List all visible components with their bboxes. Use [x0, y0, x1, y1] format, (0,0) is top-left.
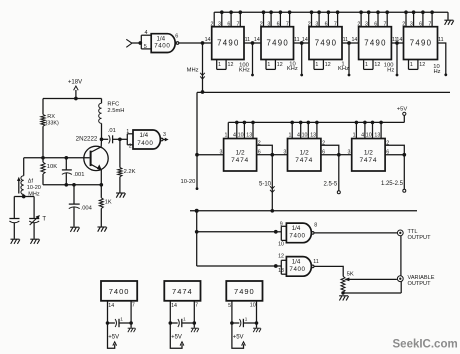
svg-text:10: 10 [366, 133, 372, 139]
svg-text:.01: .01 [108, 128, 116, 134]
svg-text:7474: 7474 [359, 157, 377, 164]
svg-text:7: 7 [195, 303, 198, 309]
svg-text:14: 14 [205, 37, 211, 43]
svg-text:4: 4 [361, 133, 364, 139]
svg-text:6: 6 [386, 150, 389, 156]
svg-text:7: 7 [132, 303, 135, 309]
svg-text:5: 5 [228, 303, 231, 309]
svg-text:KHz: KHz [239, 68, 250, 74]
svg-text:OUTPUT: OUTPUT [408, 281, 432, 287]
svg-text:5K: 5K [347, 271, 354, 277]
svg-text:13: 13 [374, 133, 380, 139]
svg-text:14: 14 [254, 37, 260, 43]
svg-text:6: 6 [322, 150, 325, 156]
svg-text:2: 2 [129, 144, 132, 150]
svg-text:12: 12 [277, 62, 283, 68]
svg-text:6: 6 [258, 150, 261, 156]
svg-text:2: 2 [260, 21, 263, 27]
svg-text:SeekIC.com: SeekIC.com [393, 339, 458, 351]
svg-text:12: 12 [325, 62, 331, 68]
svg-text:6: 6 [277, 21, 280, 27]
svg-text:10: 10 [250, 303, 256, 309]
svg-text:+5V: +5V [108, 335, 119, 341]
svg-text:1/4: 1/4 [139, 132, 148, 139]
svg-text:7474: 7474 [231, 157, 249, 164]
svg-text:13: 13 [278, 268, 284, 274]
svg-text:6: 6 [374, 21, 377, 27]
svg-text:3: 3 [218, 21, 221, 27]
svg-text:1: 1 [126, 129, 129, 135]
svg-text:3: 3 [267, 21, 270, 27]
svg-text:3: 3 [315, 21, 318, 27]
svg-text:3: 3 [219, 149, 222, 155]
svg-text:2: 2 [357, 21, 360, 27]
svg-text:13: 13 [310, 133, 316, 139]
svg-text:7: 7 [237, 21, 240, 27]
svg-text:2.5mH: 2.5mH [107, 108, 124, 114]
svg-text:1: 1 [353, 133, 356, 139]
svg-text:6: 6 [175, 34, 178, 40]
svg-text:10: 10 [238, 133, 244, 139]
svg-text:7490: 7490 [266, 39, 289, 48]
svg-text:1: 1 [315, 62, 318, 68]
svg-text:10-20: 10-20 [27, 185, 41, 191]
svg-text:MHz: MHz [187, 68, 199, 74]
svg-text:3: 3 [410, 21, 413, 27]
svg-text:13: 13 [246, 133, 252, 139]
svg-text:3: 3 [365, 21, 368, 27]
svg-text:.001: .001 [73, 172, 84, 178]
svg-text:1K: 1K [105, 200, 112, 206]
svg-text:7490: 7490 [364, 39, 387, 48]
svg-text:Hz: Hz [433, 69, 440, 75]
svg-text:+18V: +18V [68, 79, 82, 85]
svg-text:11: 11 [313, 259, 319, 265]
svg-text:6: 6 [227, 21, 230, 27]
svg-text:2N2222: 2N2222 [76, 136, 98, 143]
svg-text:2.5-5: 2.5-5 [324, 182, 338, 188]
svg-text:10: 10 [302, 133, 308, 139]
svg-text:12: 12 [228, 62, 234, 68]
svg-text:+5V: +5V [233, 335, 244, 341]
svg-text:.004: .004 [81, 206, 93, 212]
svg-text:1: 1 [183, 317, 186, 322]
svg-text:1: 1 [245, 317, 248, 322]
svg-text:10: 10 [278, 242, 284, 248]
svg-text:1: 1 [218, 62, 221, 68]
svg-text:10-20: 10-20 [180, 179, 195, 185]
svg-text:RX: RX [47, 114, 55, 120]
svg-text:4: 4 [145, 30, 148, 36]
svg-text:1: 1 [267, 62, 270, 68]
svg-text:2: 2 [386, 140, 389, 146]
svg-text:(33K): (33K) [46, 121, 59, 127]
svg-text:12: 12 [419, 62, 425, 68]
svg-text:3: 3 [283, 149, 286, 155]
svg-text:7400: 7400 [154, 43, 170, 50]
svg-text:7: 7 [334, 21, 337, 27]
svg-text:11: 11 [343, 37, 349, 43]
svg-text:12: 12 [374, 62, 380, 68]
svg-text:4: 4 [233, 133, 236, 139]
svg-text:1/2: 1/2 [300, 149, 309, 156]
svg-text:1: 1 [225, 133, 228, 139]
svg-text:T: T [42, 217, 46, 223]
svg-text:7: 7 [286, 21, 289, 27]
svg-text:KHz: KHz [287, 66, 298, 72]
svg-text:KHz: KHz [338, 66, 349, 72]
svg-text:1/2: 1/2 [364, 149, 373, 156]
svg-text:6: 6 [325, 21, 328, 27]
svg-text:1: 1 [288, 133, 291, 139]
svg-text:2: 2 [258, 140, 261, 146]
svg-text:2: 2 [322, 140, 325, 146]
svg-text:14: 14 [171, 303, 177, 309]
svg-text:3: 3 [348, 149, 351, 155]
svg-text:7: 7 [428, 21, 431, 27]
svg-text:11: 11 [438, 37, 444, 43]
svg-text:RFC: RFC [107, 102, 119, 108]
svg-text:7490: 7490 [234, 287, 255, 296]
svg-text:1: 1 [365, 62, 368, 68]
svg-text:7: 7 [383, 21, 386, 27]
svg-text:1.25-2.5: 1.25-2.5 [381, 181, 404, 187]
svg-text:10K: 10K [47, 164, 57, 170]
svg-text:4: 4 [297, 133, 300, 139]
svg-text:7400: 7400 [289, 233, 305, 240]
svg-text:11: 11 [294, 37, 300, 43]
svg-text:2: 2 [210, 21, 213, 27]
svg-text:14: 14 [351, 37, 357, 43]
svg-text:7474: 7474 [295, 157, 313, 164]
svg-text:9: 9 [280, 221, 283, 227]
svg-text:2: 2 [402, 21, 405, 27]
svg-text:1/4: 1/4 [292, 225, 301, 232]
svg-text:6: 6 [419, 21, 422, 27]
svg-text:1: 1 [410, 62, 413, 68]
svg-text:7400: 7400 [289, 266, 305, 273]
svg-text:7490: 7490 [217, 39, 240, 48]
svg-text:Δf: Δf [28, 178, 34, 184]
svg-text:Hz: Hz [387, 68, 394, 74]
svg-text:2: 2 [308, 21, 311, 27]
svg-text:12: 12 [278, 254, 284, 260]
svg-text:5-10: 5-10 [259, 182, 272, 188]
svg-text:7474: 7474 [172, 287, 193, 296]
svg-text:7400: 7400 [137, 140, 153, 147]
svg-text:OUTPUT: OUTPUT [408, 235, 432, 241]
svg-text:7400: 7400 [109, 287, 130, 296]
svg-text:14: 14 [108, 303, 114, 309]
svg-text:3: 3 [163, 132, 166, 138]
svg-text:7490: 7490 [410, 39, 433, 48]
svg-text:1/2: 1/2 [236, 149, 245, 156]
svg-text:1/4: 1/4 [292, 258, 301, 265]
svg-text:11: 11 [245, 37, 251, 43]
svg-text:8: 8 [314, 223, 317, 229]
svg-text:+5V: +5V [397, 106, 408, 112]
svg-text:+5V: +5V [171, 335, 182, 341]
svg-text:5: 5 [144, 44, 147, 50]
svg-text:1/4: 1/4 [156, 35, 165, 42]
svg-text:2.2K: 2.2K [124, 169, 136, 175]
svg-text:1: 1 [120, 317, 123, 322]
svg-text:7490: 7490 [315, 39, 338, 48]
